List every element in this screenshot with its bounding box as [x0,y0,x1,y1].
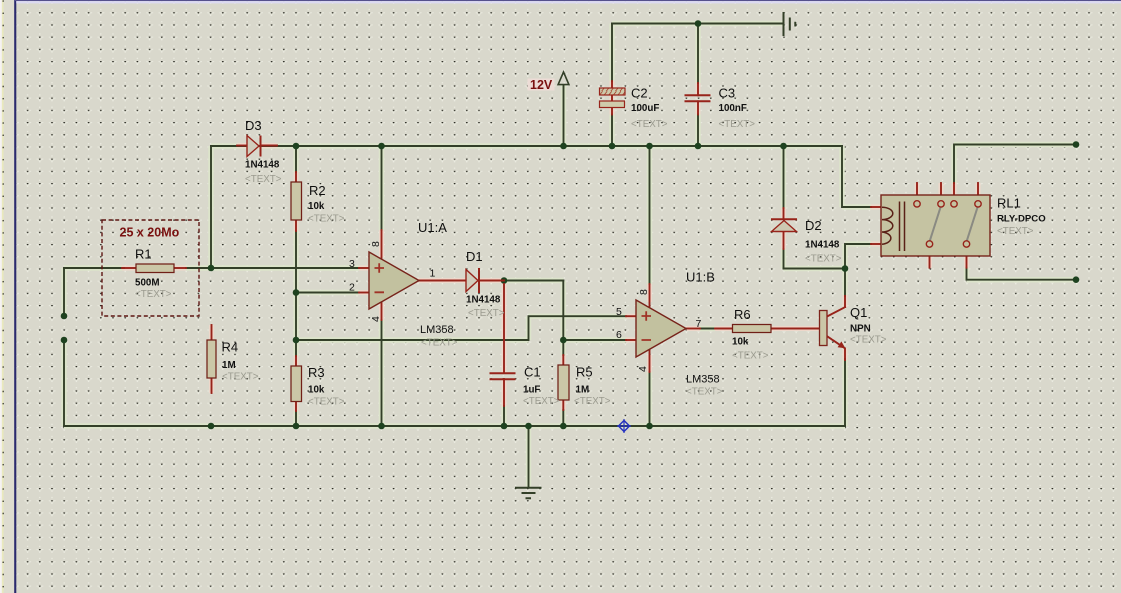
resistor R6 [733,325,772,333]
junction rail C2 [609,143,616,150]
junction right bottom end [1073,276,1080,283]
pin C1 bottom [503,379,505,406]
svg-text:RLY-DPCO: RLY-DPCO [997,214,1046,225]
pin U1:A 2 [359,292,369,294]
svg-text:<TEXT>: <TEXT> [222,371,259,382]
svg-text:<TEXT>: <TEXT> [686,387,723,398]
resistor R3 [291,366,302,402]
resistor R5 [558,365,569,400]
wire C3 bottom to rail [697,115,699,147]
junction rail D2 [780,143,787,150]
wire C1 bottom [503,406,505,426]
pin R6 right to Q1 base [771,328,820,330]
wire emitter drop [844,359,846,426]
pin U1:B 4 [649,350,651,373]
left window margin strips [0,0,2,593]
junction left stub end upper [61,313,68,320]
pin Q1 collector stub [844,296,846,307]
resistor R2 [291,182,302,220]
svg-text:12V: 12V [530,78,553,92]
junction D1 output node [501,277,508,284]
svg-text:C1: C1 [524,365,541,380]
svg-text:<TEXT>: <TEXT> [245,174,282,185]
wire C3 top drop [697,24,699,84]
transistor Q1 [820,307,846,349]
junction ground rail gnd [525,423,532,430]
svg-text:U1:B: U1:B [686,270,715,285]
pin D3 cathode [261,145,277,147]
svg-text:C2: C2 [631,86,648,101]
pin RL1 contact 3 [953,183,955,201]
svg-text:<TEXT>: <TEXT> [135,289,172,300]
pin Q1 emitter stub [844,349,846,361]
ground symbol bottom [515,488,542,499]
wire R2 bottom to node [295,231,297,293]
wire ground stem [528,426,530,487]
svg-text:<TEXT>: <TEXT> [308,213,345,224]
svg-text:<TEXT>: <TEXT> [997,226,1034,237]
pin C2 bottom [611,108,613,115]
pin R6 left [715,328,733,330]
svg-text:R4: R4 [222,340,239,355]
wire rail drop to relay coil [842,146,871,207]
pin U1:B 5 [626,315,636,317]
wire coil bottom drop [845,244,871,269]
svg-text:1M: 1M [576,384,590,395]
wire C2 top drop [611,24,613,82]
svg-text:1N4148: 1N4148 [805,240,840,251]
junction ground rail R4 [208,423,215,430]
wire top ground rail [612,23,784,25]
sheet border top [14,0,1121,1]
svg-text:2: 2 [349,282,355,294]
svg-text:<TEXT>: <TEXT> [468,308,505,319]
svg-text:25 x 20Mo: 25 x 20Mo [120,226,180,240]
svg-text:Q1: Q1 [850,305,867,320]
pin U1:B out [687,328,701,330]
wire bottom ground rail [64,425,845,427]
svg-text:8: 8 [370,241,382,247]
pin R4 bottom [211,378,213,393]
diode D1 [466,268,479,293]
svg-text:<TEXT>: <TEXT> [523,396,560,407]
pin R3 bottom [295,402,297,412]
svg-text:R1: R1 [135,247,152,262]
pin RL1 pole 2 [966,247,968,268]
wire rail to D2 [783,146,785,208]
junction left stub end lower [61,337,68,344]
svg-text:6: 6 [616,329,622,341]
pin RL1 coil bottom [871,243,883,245]
svg-text:10k: 10k [308,201,325,212]
wire main +12V rail [211,145,842,147]
capacitor C2 [600,88,626,108]
svg-text:C3: C3 [719,86,736,101]
pin R1 left [122,267,136,269]
resistor R1 [136,264,174,273]
svg-text:NPN: NPN [850,324,871,335]
pin R2 top [295,172,297,182]
wire R1 left horizontal [64,267,124,269]
svg-text:<TEXT>: <TEXT> [732,351,769,362]
svg-text:4: 4 [637,366,649,372]
pin R5 top [562,355,564,365]
pin U1:A 3 [359,267,369,269]
junction collector node [842,265,849,272]
pin D2 cathode [783,208,785,219]
svg-text:1uF: 1uF [523,384,540,395]
svg-text:<TEXT>: <TEXT> [574,396,611,407]
power terminal 12V arrow [558,72,569,85]
wire pin7 to R6 [700,328,715,330]
junction R2-pin2 node [293,289,300,296]
wire D2 to collector node [784,268,846,270]
power label 12V highlight [528,79,555,91]
wire left stub upper [63,268,65,316]
wire relay contact to right node [954,145,1076,184]
svg-text:RL1: RL1 [997,196,1021,211]
svg-text:R5: R5 [576,365,593,380]
pin C2 top [611,81,613,88]
wire U1:A pin8 to rail [381,146,383,230]
junction rail 12V [560,143,567,150]
svg-text:D2: D2 [805,218,822,233]
svg-text:<TEXT>: <TEXT> [631,119,668,130]
svg-text:R3: R3 [308,365,325,380]
svg-text:D3: D3 [245,118,262,133]
wire corner down to pin6 node [562,281,564,356]
svg-text:5: 5 [616,306,622,318]
wire node to collector [844,269,846,297]
wire 12V stem [563,85,565,146]
wire left stub lower [63,340,65,426]
wire relay pole to right node [967,268,1077,280]
pin R1 right [174,267,186,269]
pin D3 anode [237,145,247,147]
svg-text:LM358: LM358 [420,324,454,336]
pin C3 bottom [697,101,699,114]
pin C3 top [697,83,699,95]
pin D2 anode [783,232,785,250]
svg-text:1N4148: 1N4148 [466,295,501,306]
wire D1 out to corner [504,280,563,282]
svg-text:10k: 10k [308,384,325,395]
svg-text:<TEXT>: <TEXT> [719,119,756,130]
op-amp U1:B [636,300,686,357]
capacitor C1 [490,373,516,379]
pin R4 top [211,325,213,340]
pin RL1 contact 4 [977,183,979,201]
junction node A R1-R4-D3 [208,265,215,272]
wire left branch vertical [210,146,212,268]
svg-text:10k: 10k [732,337,749,348]
junction R3 top node [293,337,300,344]
svg-text:8: 8 [638,289,650,295]
svg-text:500M: 500M [135,278,160,289]
wire R3 bottom [295,411,297,426]
ground symbol top right rotated [784,12,796,36]
pin R5 bottom [562,400,564,410]
wire R5 bottom [562,410,564,426]
diode D3 [247,136,261,157]
svg-text:<TEXT>: <TEXT> [805,254,842,265]
wire R2 top [295,146,297,172]
pin RL1 pole 1 [929,247,931,268]
svg-text:<TEXT>: <TEXT> [850,335,887,346]
pin C2 middle [611,95,613,101]
pin D1 cathode [480,280,504,282]
wire U1:B pin4 to ground rail [649,372,651,426]
svg-text:R6: R6 [734,307,751,322]
wire R3 node to pin5 step [296,316,626,340]
wire R1 right to node [186,267,211,269]
pin RL1 coil top [871,206,883,208]
wire halo layer (decorative) [64,24,1076,488]
capacitor C3 [685,95,711,101]
svg-text:<TEXT>: <TEXT> [421,338,458,349]
junction rail R2 [293,143,300,150]
origin marker [617,419,631,433]
wire U1:A pin4 to ground rail [381,320,383,426]
pin U1:A out and D1 anode [419,280,467,282]
svg-text:3: 3 [349,258,355,270]
pin RL1 contact 2 [940,183,942,201]
junction rail U1:B pin8 [646,143,653,150]
relay RL1 [881,195,990,256]
resistor R4 [207,340,216,378]
junction right top end [1073,141,1080,148]
wire node down to R3 node [295,293,297,357]
pin R3 top [295,356,297,366]
junction top C3 [695,20,702,27]
junction rail U1:A pin8 [378,143,385,150]
svg-text:100uF: 100uF [631,103,659,114]
svg-text:U1:A: U1:A [418,220,447,235]
wire node to pin2 [296,292,359,294]
pin C1 top [503,284,505,373]
junction ground rail pin4A [378,423,385,430]
sheet border left [14,0,16,593]
junction ground rail C1 [501,423,508,430]
wire U1:B pin8 to rail [649,146,651,284]
svg-text:7: 7 [696,318,702,330]
pin U1:B 6 [626,339,636,341]
svg-text:<TEXT>: <TEXT> [308,396,345,407]
svg-text:1M: 1M [222,360,236,371]
wire D2 bottom [783,249,785,269]
pin R2 bottom [295,220,297,231]
pin U1:B 8 [649,284,651,307]
svg-text:R2: R2 [309,183,326,198]
pin U1:A 8 [381,230,383,259]
svg-text:LM358: LM358 [686,374,720,386]
wire node to pin3 [211,267,359,269]
op-amp U1:A [369,252,419,309]
svg-text:1: 1 [430,268,436,280]
svg-text:D1: D1 [466,249,483,264]
diode D2 [771,219,797,231]
junction R5-pin6 node [560,337,567,344]
selection region 25x20Mo [102,220,199,316]
pin U1:A 4 [381,302,383,320]
svg-text:1N4148: 1N4148 [245,160,280,171]
svg-text:100nF: 100nF [719,103,747,114]
wire C2 bottom to rail [611,115,613,147]
junction ground rail R5 [560,423,567,430]
junction rail C3 [695,143,702,150]
pin RL1 contact 1 [916,183,918,201]
junction ground rail R3 [293,423,300,430]
junction ground rail pin4B [646,423,653,430]
svg-text:4: 4 [370,316,382,322]
wire node to pin6 [563,339,626,341]
